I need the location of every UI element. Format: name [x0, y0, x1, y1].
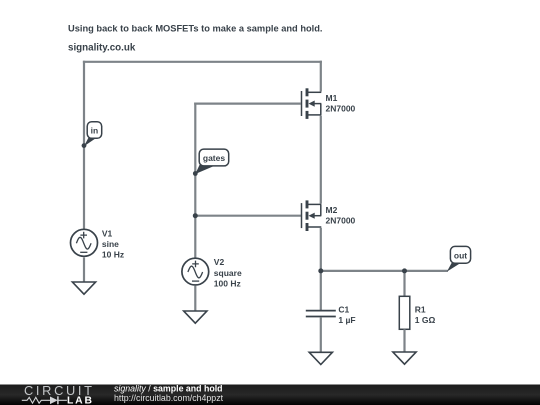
svg-text:http://circuitlab.com/ch4ppzt: http://circuitlab.com/ch4ppzt	[114, 393, 224, 403]
ground below C1	[309, 352, 332, 364]
wire: left vertical (in net) down to V1	[83, 61, 85, 230]
svg-text:signality / sample and hold: signality / sample and hold	[114, 383, 223, 393]
svg-text:1 GΩ: 1 GΩ	[415, 315, 436, 325]
svg-text:square: square	[214, 268, 242, 278]
voltage source V1	[71, 229, 98, 256]
svg-text:LAB: LAB	[67, 396, 92, 405]
ground below R1	[393, 352, 416, 364]
wire: top horizontal from in-branch to M1 drain branch	[83, 61, 322, 63]
node label "out"	[447, 246, 471, 271]
svg-text:2N7000: 2N7000	[326, 215, 356, 225]
capacitor C1	[306, 311, 336, 317]
ground below V2	[184, 311, 207, 323]
svg-text:Using back to back MOSFETs to: Using back to back MOSFETs to make a sam…	[68, 24, 323, 34]
CircuitLab logo schematic squiggle	[22, 396, 67, 404]
resistor R1 body	[399, 296, 410, 329]
svg-text:V2: V2	[214, 257, 225, 267]
wire: out node down to R1	[403, 271, 405, 296]
svg-text:2N7000: 2N7000	[326, 104, 356, 114]
svg-text:gates: gates	[203, 153, 225, 163]
svg-text:sine: sine	[102, 239, 119, 249]
voltage source V2	[182, 258, 209, 285]
svg-text:M2: M2	[326, 205, 338, 215]
wire: out horizontal	[321, 270, 448, 272]
wire: right vertical from top wire to M1 drain	[320, 61, 322, 92]
svg-text:V1: V1	[102, 228, 113, 238]
svg-text:signality.co.uk: signality.co.uk	[68, 42, 136, 53]
wire: C1 to ground	[320, 317, 322, 352]
svg-text:M1: M1	[326, 93, 338, 103]
wire: V2 to ground	[194, 286, 196, 311]
svg-text:10 Hz: 10 Hz	[102, 250, 124, 260]
svg-text:in: in	[91, 125, 99, 135]
wire: M1 source down to M2 source	[320, 116, 322, 204]
wire: M2 drain down to out node	[320, 228, 322, 271]
junction: out node at R1	[402, 268, 407, 273]
svg-text:out: out	[454, 250, 467, 260]
footer black bar	[0, 385, 540, 405]
svg-text:1 µF: 1 µF	[338, 315, 355, 325]
svg-text:R1: R1	[415, 305, 426, 315]
wire: out node down to C1	[320, 271, 322, 310]
node label "gates"	[193, 149, 229, 176]
junction: out node at C1	[318, 268, 323, 273]
node label "in"	[82, 122, 102, 148]
svg-text:C1: C1	[338, 305, 349, 315]
wire: M1 gate horizontal	[194, 102, 301, 104]
MOSFET M2 (2N7000), source up	[302, 200, 322, 231]
svg-text:100 Hz: 100 Hz	[214, 278, 241, 288]
ground below V1	[72, 282, 95, 294]
wire: V1 to ground	[83, 257, 85, 282]
wire: R1 to ground	[403, 329, 405, 352]
MOSFET M1 (2N7000)	[302, 88, 322, 119]
wire: M2 gate horizontal	[195, 215, 301, 217]
wire: gates vertical down to V2	[194, 103, 196, 259]
junction: gates to M2 gate	[193, 213, 198, 218]
